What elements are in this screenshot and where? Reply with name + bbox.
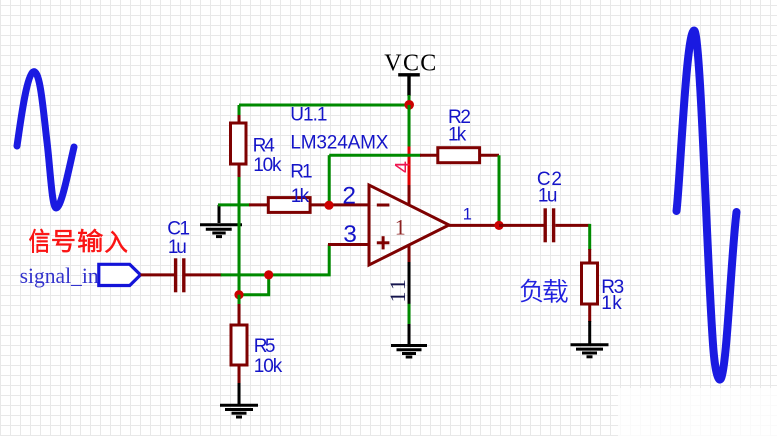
wire R1 left lead <box>249 203 269 206</box>
wire R5 to ground (black) <box>238 383 241 404</box>
input sine wave <box>17 72 74 208</box>
wire gnd stub to R1 (green) <box>218 203 250 206</box>
wire feedback vertical (green) <box>328 155 331 205</box>
junction node R1/pin2/feedback <box>324 201 333 210</box>
junction output node <box>494 221 503 230</box>
wire R3 to ground (black) <box>588 321 591 344</box>
junction node A (main wire) <box>264 270 273 279</box>
wire R5 bottom lead <box>238 365 241 384</box>
wire pin11 green middle <box>408 304 411 325</box>
wire R2 to output node (green) <box>498 155 501 222</box>
svg-text:1k: 1k <box>601 293 622 314</box>
label 信号输入 (signal input, red) <box>29 229 127 253</box>
wire pin11 black lower <box>408 324 411 344</box>
svg-text:1k: 1k <box>448 125 467 146</box>
wire pin4 segment (red) <box>408 147 411 187</box>
svg-text:1: 1 <box>463 206 472 224</box>
wire node B to R5 (green then lead) <box>238 295 241 305</box>
svg-text:1: 1 <box>385 279 410 290</box>
vertical rail R4 (x=239) top lead green <box>238 105 241 116</box>
svg-text:R1: R1 <box>290 162 312 183</box>
wire feedback top (green) <box>329 154 421 157</box>
wire C2 to R3 (green) <box>588 224 591 250</box>
svg-text:1: 1 <box>385 292 410 303</box>
wire pin11 black upper <box>408 262 411 304</box>
wire R2 right lead <box>480 154 499 157</box>
resistor R5 <box>231 325 247 365</box>
svg-text:2: 2 <box>342 183 356 210</box>
VCC power bar symbol <box>398 73 420 76</box>
wire C1 to pin3 corner (green) <box>221 245 330 275</box>
ground symbol (below R3) <box>571 345 609 357</box>
wire output to C2 <box>499 224 544 227</box>
op-amp minus sign <box>377 204 390 207</box>
wire R4 top lead <box>238 115 241 124</box>
svg-text:VCC: VCC <box>384 50 436 76</box>
svg-text:3: 3 <box>343 221 357 248</box>
resistor R2 <box>438 148 480 163</box>
wire VCC down to pin4 (green) <box>408 105 411 147</box>
wire op-amp output <box>449 224 499 227</box>
ground symbol (below R5) <box>220 405 258 417</box>
svg-text:4: 4 <box>390 161 414 173</box>
svg-text:1: 1 <box>395 215 406 240</box>
wire C1 lead right <box>186 273 222 276</box>
op-amp U1 triangle <box>369 185 449 265</box>
resistor R3 <box>582 263 598 304</box>
junction VCC node <box>404 100 414 110</box>
wire R1 right lead <box>310 203 329 206</box>
svg-text:R5: R5 <box>254 336 276 357</box>
watermark (faint, bottom right) <box>618 388 777 436</box>
wire VCC stub (green tip) <box>408 95 411 102</box>
wire C2 right lead <box>555 224 589 227</box>
wire R3 top lead <box>588 249 591 264</box>
capacitor C1 <box>176 258 184 292</box>
svg-text:U1.1: U1.1 <box>290 105 327 126</box>
wire pin11 lead (maroon) <box>408 245 411 263</box>
wire R2 left lead <box>420 154 438 157</box>
ground symbol (R1 input) <box>200 225 242 237</box>
wire top rail (green) <box>239 104 409 107</box>
wire VCC stub (black) <box>407 75 410 96</box>
wire R3 bottom lead <box>588 304 591 322</box>
svg-text:1u: 1u <box>168 237 187 258</box>
op-amp plus sign <box>377 236 390 249</box>
wire pin2 lead <box>329 203 369 206</box>
junction node B (R5 top) <box>234 290 243 299</box>
label 负载 (load, blue) <box>520 279 567 303</box>
wire pin4 lead (maroon) <box>408 185 411 204</box>
svg-text:10k: 10k <box>253 155 282 176</box>
wire pin3 lead <box>328 243 369 246</box>
wire node B jog (green) <box>239 275 269 295</box>
svg-text:10k: 10k <box>254 356 283 377</box>
resistor R1 <box>268 198 310 213</box>
output sine wave <box>677 30 737 379</box>
ground stub (left of R1) <box>218 205 221 223</box>
svg-text:1k: 1k <box>291 186 310 207</box>
svg-text:R4: R4 <box>253 136 276 157</box>
svg-text:1u: 1u <box>538 185 558 206</box>
wire port to C1 <box>141 273 175 276</box>
resistor R4 <box>231 123 247 164</box>
ground symbol (op-amp pin 11) <box>391 346 427 358</box>
svg-text:signal_in: signal_in <box>20 263 99 288</box>
wire R4 bottom lead <box>238 164 241 178</box>
wire R5 top lead <box>238 304 241 326</box>
svg-text:LM324AMX: LM324AMX <box>290 132 388 153</box>
capacitor C2 <box>545 208 553 242</box>
wire R4 to node B (green vertical) <box>238 177 241 295</box>
port signal_in symbol <box>99 264 141 285</box>
